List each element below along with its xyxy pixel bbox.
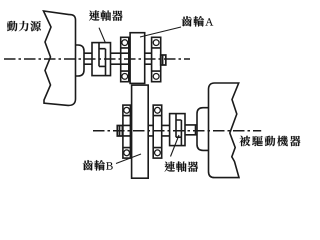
leader to coupling C2 — [171, 135, 180, 157]
leader to gear B — [116, 154, 141, 164]
centerline upper shaft — [4, 58, 190, 60]
gear B — [132, 85, 149, 178]
bearing block B1 (upper left) — [121, 37, 129, 81]
gear A — [130, 33, 145, 84]
shaft segment boss to coupling C1 — [84, 53, 92, 64]
bearing block B4 (lower right) — [153, 105, 162, 158]
coupling C2 inner jaws — [176, 114, 181, 146]
lower shaft end nut — [117, 126, 122, 137]
centerline lower shaft — [93, 130, 261, 132]
label coupling upper — [89, 10, 123, 21]
bearing boss on driven machine — [197, 108, 209, 151]
shaft segment into gear B — [122, 125, 131, 135]
bearing B4 balls — [155, 107, 161, 113]
label gear A — [182, 16, 214, 27]
bearing boss on power source — [76, 45, 85, 76]
shaft segment B4 to coupling C2 — [162, 125, 170, 135]
bearing B2 balls — [153, 40, 159, 46]
label gear B — [83, 160, 113, 171]
upper shaft end nut — [161, 55, 166, 65]
label coupling lower — [164, 161, 198, 172]
shaft segment gear B to bearing B4 — [148, 125, 153, 135]
coupling C1 inner jaws — [99, 43, 106, 76]
coupling C1 outer — [92, 43, 111, 76]
driven machine body (broken outline) — [209, 83, 240, 178]
leader to gear A — [140, 27, 181, 37]
label driven-machine — [239, 136, 300, 147]
label power-source — [7, 21, 41, 32]
leader to coupling C1 — [99, 28, 106, 43]
shaft segment C1 to gear A — [111, 53, 131, 64]
power source body (broken outline) — [44, 11, 76, 105]
shaft segment C2 to driven machine — [185, 125, 197, 135]
coupling C2 outer — [170, 114, 185, 146]
bearing B1 balls — [122, 40, 128, 46]
shaft segment gear A to bearing B2 — [145, 53, 152, 64]
bearing block B2 (upper right) — [152, 37, 161, 81]
bearing B3 balls — [124, 107, 130, 113]
bearing block B3 (lower left) — [123, 105, 130, 158]
